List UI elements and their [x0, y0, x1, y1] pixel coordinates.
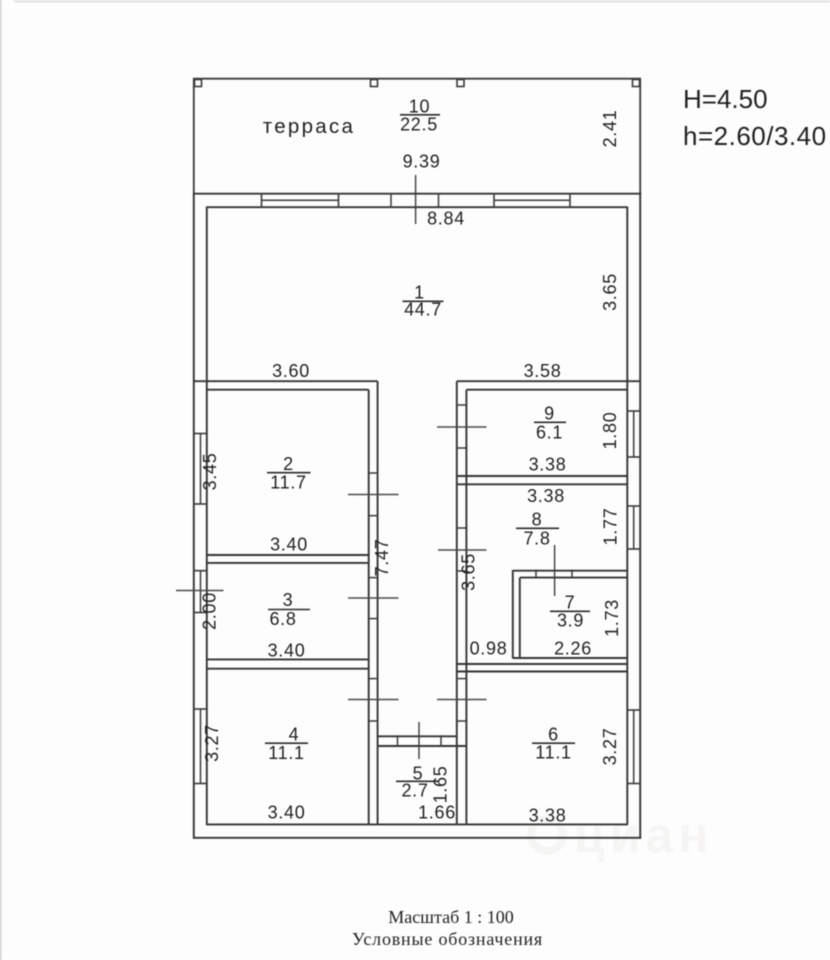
room1 fraction bar — [403, 300, 444, 302]
wall room2/room3 upper — [207, 554, 369, 556]
svg-text:3.60: 3.60 — [272, 361, 310, 381]
corridor west wall line w2 — [377, 381, 379, 824]
terrace post 3 — [457, 80, 464, 87]
svg-text:3.27: 3.27 — [202, 724, 222, 762]
window left wall room3 tick top — [193, 570, 208, 572]
room2 door cap bottom — [368, 515, 379, 517]
corridor west wall line w1 — [368, 390, 370, 825]
window top wall 1 tick right — [338, 193, 340, 208]
svg-text:3.40: 3.40 — [268, 803, 306, 823]
svg-text:7.8: 7.8 — [523, 529, 550, 549]
front door tick right — [438, 193, 440, 208]
svg-text:1.66: 1.66 — [418, 803, 456, 823]
svg-text:6.1: 6.1 — [536, 423, 563, 443]
house left wall inner — [206, 207, 208, 825]
svg-text:6: 6 — [548, 725, 559, 745]
room5 door cap right — [440, 735, 442, 747]
wall room8/room6 upper — [457, 663, 627, 665]
svg-text:11.7: 11.7 — [270, 473, 307, 493]
window left wall room2 tick bottom — [193, 503, 208, 505]
house top wall outer — [193, 193, 641, 195]
wall room1/room9 outer — [457, 380, 640, 382]
svg-text:2: 2 — [283, 454, 294, 474]
window top wall 1 tick left — [261, 193, 263, 208]
room5 top wall lower — [378, 745, 466, 747]
window left wall room4 tick top — [193, 708, 208, 710]
wall room2/room3 lower — [207, 562, 369, 564]
terrace top wall — [193, 78, 641, 80]
svg-text:3.58: 3.58 — [524, 361, 562, 381]
svg-text:7: 7 — [565, 593, 576, 613]
room9 door cap bottom — [456, 447, 467, 449]
window right wall room6 tick bottom — [627, 783, 642, 785]
window top wall 2 middle line — [494, 199, 570, 201]
room9 door leader — [437, 426, 487, 428]
room5 door dim line vertical — [418, 722, 420, 759]
window right wall room6 tick top — [627, 709, 642, 711]
terrace post 4 — [633, 80, 640, 87]
svg-text:9.39: 9.39 — [403, 152, 441, 172]
window left wall room2 middle — [200, 434, 202, 505]
room10 fraction bar — [400, 114, 440, 116]
house left wall outer — [193, 193, 195, 839]
svg-text:0.98: 0.98 — [470, 639, 508, 659]
window right wall room6 middle — [633, 710, 635, 784]
svg-text:8: 8 — [532, 510, 543, 530]
svg-text:циан: циан — [574, 807, 713, 863]
svg-text:3.65: 3.65 — [600, 273, 620, 311]
svg-text:10: 10 — [409, 97, 430, 117]
window left wall room3 tick bottom — [193, 612, 208, 614]
house bottom wall inner — [206, 823, 628, 825]
svg-text:3.45: 3.45 — [200, 453, 220, 491]
window right wall room9 tick top — [627, 410, 642, 412]
svg-text:22.5: 22.5 — [400, 115, 438, 135]
svg-text:11.1: 11.1 — [268, 743, 305, 763]
room6 door cap top — [456, 678, 467, 680]
svg-text:3.40: 3.40 — [268, 641, 306, 661]
svg-text:4: 4 — [289, 725, 300, 745]
svg-text:1.73: 1.73 — [602, 599, 622, 637]
svg-text:11.1: 11.1 — [535, 743, 572, 763]
room7 bottom wall — [513, 657, 628, 659]
window room3 leader line — [176, 590, 224, 592]
svg-text:3.65: 3.65 — [459, 553, 479, 591]
svg-text:3.38: 3.38 — [529, 806, 567, 826]
svg-text:h=2.60/3.40: h=2.60/3.40 — [683, 121, 827, 151]
room7 door cap left — [535, 570, 537, 579]
window top wall 2 tick right — [569, 193, 571, 208]
svg-text:6.8: 6.8 — [269, 609, 296, 629]
svg-text:терраса: терраса — [263, 115, 356, 138]
room7 door dim line vertical — [554, 545, 556, 596]
photo edge top — [14, 1, 830, 3]
svg-text:3.40: 3.40 — [270, 535, 308, 555]
window right wall room9 middle — [633, 411, 635, 457]
room5 fraction bar — [396, 780, 438, 782]
window left wall room4 middle — [200, 709, 202, 784]
svg-text:2.7: 2.7 — [401, 781, 428, 801]
window right wall room9 tick bottom — [627, 456, 642, 458]
room2 fraction bar — [267, 472, 311, 474]
wall room9/room8 upper — [457, 475, 627, 477]
svg-text:9: 9 — [544, 404, 555, 424]
room2 door cap top — [368, 472, 379, 474]
wall room1/room2 outer — [194, 380, 378, 382]
wall room1/room9 inner — [466, 389, 627, 391]
house bottom wall outer — [193, 837, 641, 839]
front door tick left — [390, 193, 392, 208]
room6 fraction bar — [532, 742, 575, 744]
room3 fraction bar — [268, 609, 310, 611]
svg-text:2.00: 2.00 — [200, 592, 220, 630]
room5 top wall upper — [378, 735, 457, 737]
room3 door leader — [348, 597, 399, 599]
svg-text:2.41: 2.41 — [600, 110, 620, 148]
room5 door cap left — [397, 735, 399, 747]
room9 fraction bar — [534, 421, 566, 423]
room4 door cap bottom — [368, 720, 379, 722]
svg-text:H=4.50: H=4.50 — [683, 84, 768, 114]
house right wall inner — [626, 207, 628, 825]
window left wall room4 tick bottom — [193, 783, 208, 785]
svg-text:3.38: 3.38 — [527, 486, 565, 506]
svg-text:3.38: 3.38 — [529, 455, 567, 475]
terrace post 2 — [371, 80, 378, 87]
dim line 9.39 vertical — [415, 175, 417, 224]
terrace post 1 — [195, 80, 202, 87]
window top wall 1 middle line — [262, 199, 339, 201]
room7 door cap right — [571, 570, 573, 579]
room7 left wall outer — [512, 570, 514, 659]
terrace left wall — [193, 78, 195, 194]
wall room3/room4 lower — [207, 668, 369, 670]
room8 fraction bar — [516, 527, 559, 529]
svg-text:2.26: 2.26 — [554, 639, 592, 659]
svg-text:3: 3 — [283, 590, 294, 610]
svg-text:1.65: 1.65 — [431, 766, 451, 804]
wall room1/room2 inner — [207, 389, 369, 391]
room8 door cap top — [456, 527, 467, 529]
svg-text:1.77: 1.77 — [601, 508, 621, 546]
room3 door cap top — [368, 577, 379, 579]
terrace right wall — [639, 78, 641, 194]
window right wall room8 middle — [633, 506, 635, 549]
room8 door cap bottom — [456, 570, 467, 572]
window top wall 2 tick left — [493, 193, 495, 208]
window left wall room3 middle — [200, 571, 202, 613]
window left wall room2 tick top — [193, 433, 208, 435]
room7 left wall inner — [519, 578, 521, 659]
corridor east wall line e1 — [456, 381, 458, 824]
room9 door cap top — [456, 404, 467, 406]
svg-text:1.80: 1.80 — [600, 412, 620, 450]
room7 top wall inner — [520, 577, 628, 579]
room3 door cap bottom — [368, 618, 379, 620]
svg-text:Условные обозначения: Условные обозначения — [352, 929, 543, 949]
svg-text:Масштаб 1 : 100: Масштаб 1 : 100 — [388, 907, 514, 927]
corridor east wall line e2 — [465, 390, 467, 825]
wall room9/room8 lower — [457, 483, 627, 485]
watermark cian — [531, 807, 713, 863]
svg-text:8.84: 8.84 — [427, 209, 465, 229]
room7 top wall outer — [513, 570, 628, 572]
wall room3/room4 upper — [207, 658, 369, 660]
room7 fraction bar — [550, 610, 590, 612]
room4 door cap top — [368, 678, 379, 680]
svg-text:44.7: 44.7 — [404, 300, 442, 320]
window right wall room8 tick bottom — [627, 548, 642, 550]
room2 door leader — [348, 494, 399, 496]
room8 door leader — [438, 549, 487, 551]
house right wall outer — [639, 193, 641, 839]
room6 door leader — [437, 699, 487, 701]
room4 door leader — [348, 699, 399, 701]
room4 fraction bar — [265, 742, 308, 744]
room6 door cap bottom — [456, 720, 467, 722]
photo edge left — [0, 0, 2, 960]
window right wall room8 tick top — [627, 505, 642, 507]
svg-text:7.47: 7.47 — [372, 539, 392, 577]
svg-text:3.9: 3.9 — [557, 611, 584, 631]
house top wall inner — [207, 206, 628, 208]
wall room8/room6 lower — [457, 671, 627, 673]
svg-text:3.27: 3.27 — [600, 728, 620, 766]
